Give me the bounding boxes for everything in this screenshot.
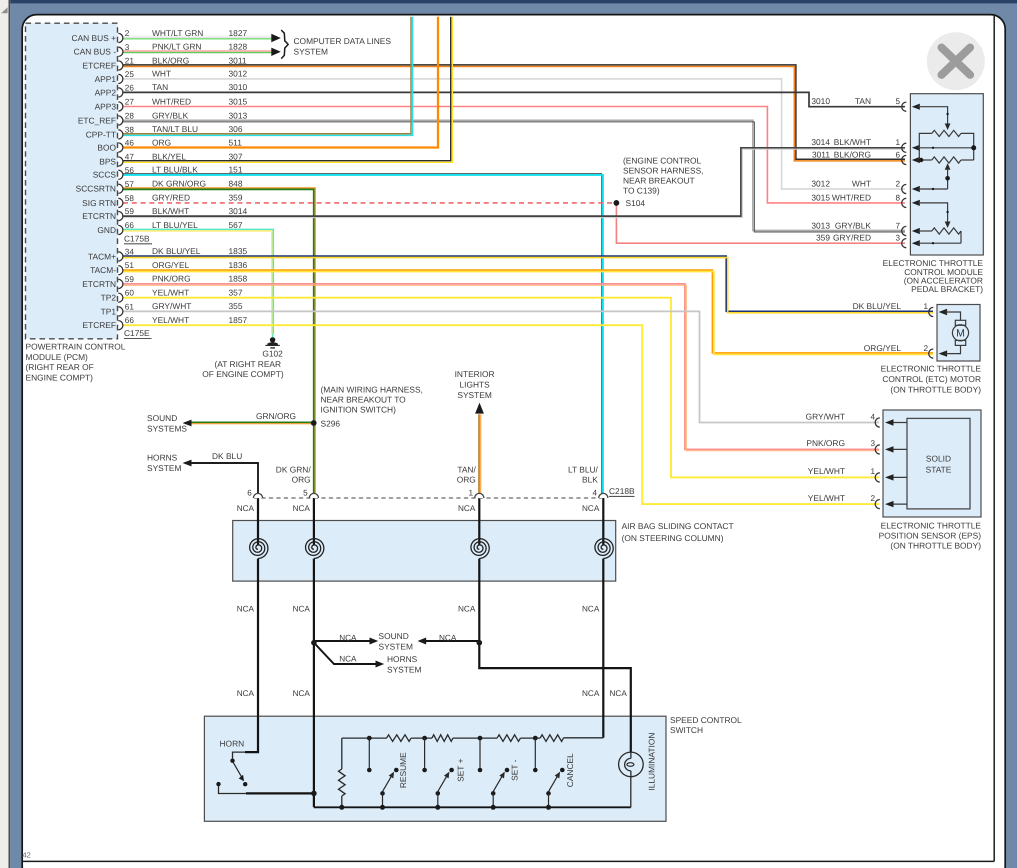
svg-text:1857: 1857: [229, 315, 248, 325]
svg-text:3010: 3010: [811, 96, 830, 106]
svg-text:2: 2: [125, 29, 130, 38]
svg-text:359: 359: [816, 233, 830, 243]
svg-text:3013: 3013: [811, 220, 830, 230]
svg-text:NCA: NCA: [439, 633, 457, 642]
svg-text:SCCSRTN: SCCSRTN: [76, 184, 116, 194]
svg-text:ORG: ORG: [457, 474, 476, 484]
svg-text:34: 34: [125, 247, 135, 256]
svg-text:ORG: ORG: [152, 137, 171, 147]
svg-text:S104: S104: [626, 198, 646, 208]
svg-text:WHT: WHT: [152, 69, 171, 79]
svg-text:NCA: NCA: [458, 504, 476, 513]
svg-text:TAN: TAN: [152, 82, 168, 92]
svg-text:42: 42: [23, 851, 31, 860]
svg-text:ELECTRONIC THROTTLE: ELECTRONIC THROTTLE: [881, 364, 982, 374]
svg-text:HORNS: HORNS: [387, 654, 418, 664]
svg-text:SYSTEM: SYSTEM: [379, 641, 413, 651]
svg-text:2: 2: [870, 494, 875, 503]
svg-text:DK BLU/YEL: DK BLU/YEL: [152, 246, 201, 256]
svg-text:(ON THROTTLE BODY): (ON THROTTLE BODY): [890, 385, 981, 395]
svg-text:GRN/ORG: GRN/ORG: [256, 411, 296, 421]
svg-text:RESUME: RESUME: [398, 752, 408, 788]
svg-text:1836: 1836: [229, 260, 248, 270]
svg-text:66: 66: [125, 221, 135, 230]
svg-text:YEL/WHT: YEL/WHT: [152, 315, 189, 325]
svg-text:NCA: NCA: [293, 689, 311, 698]
svg-text:CANCEL: CANCEL: [565, 753, 575, 787]
svg-text:SOLID: SOLID: [926, 453, 951, 463]
svg-text:AIR BAG SLIDING CONTACT: AIR BAG SLIDING CONTACT: [622, 521, 734, 531]
svg-text:ORG/YEL: ORG/YEL: [152, 260, 190, 270]
svg-text:C175E: C175E: [124, 328, 150, 338]
svg-text:BLK/YEL: BLK/YEL: [152, 151, 186, 161]
svg-text:57: 57: [125, 180, 135, 189]
svg-text:COMPUTER DATA LINES: COMPUTER DATA LINES: [294, 36, 392, 46]
svg-text:HORN: HORN: [220, 739, 245, 749]
svg-text:1858: 1858: [229, 274, 248, 284]
svg-text:CAN BUS +: CAN BUS +: [72, 33, 117, 43]
svg-text:46: 46: [125, 139, 135, 148]
svg-text:PEDAL BRACKET): PEDAL BRACKET): [911, 284, 983, 294]
svg-text:S296: S296: [321, 418, 341, 428]
svg-text:GND: GND: [97, 225, 116, 235]
svg-text:BLK/ORG: BLK/ORG: [152, 55, 189, 65]
svg-text:BLK/WHT: BLK/WHT: [152, 206, 189, 216]
svg-text:GRY/WHT: GRY/WHT: [806, 411, 845, 421]
svg-text:(RIGHT REAR OF: (RIGHT REAR OF: [26, 362, 94, 372]
svg-text:GRY/BLK: GRY/BLK: [152, 110, 189, 120]
svg-text:4: 4: [870, 412, 875, 421]
svg-text:848: 848: [229, 179, 243, 189]
svg-text:LT BLU/BLK: LT BLU/BLK: [152, 165, 198, 175]
svg-text:YEL/WHT: YEL/WHT: [152, 288, 189, 298]
svg-text:SET -: SET -: [510, 759, 520, 780]
svg-text:3: 3: [895, 234, 900, 243]
svg-text:25: 25: [125, 70, 135, 79]
svg-text:61: 61: [125, 302, 135, 311]
svg-text:APP1: APP1: [95, 74, 117, 84]
svg-text:G102: G102: [262, 349, 283, 359]
svg-text:SYSTEMS: SYSTEMS: [147, 423, 187, 433]
svg-text:C175B: C175B: [124, 234, 150, 244]
svg-text:3015: 3015: [229, 96, 248, 106]
svg-text:NCA: NCA: [458, 605, 476, 614]
svg-text:1827: 1827: [229, 28, 248, 38]
svg-text:ELECTRONIC THROTTLE: ELECTRONIC THROTTLE: [881, 520, 982, 530]
svg-text:DK BLU/YEL: DK BLU/YEL: [853, 301, 902, 311]
svg-text:GRY/WHT: GRY/WHT: [152, 301, 191, 311]
svg-text:ORG/YEL: ORG/YEL: [864, 343, 902, 353]
svg-text:SWITCH: SWITCH: [670, 725, 703, 735]
svg-text:(ENGINE CONTROL: (ENGINE CONTROL: [623, 155, 702, 165]
svg-text:ETCREF: ETCREF: [83, 320, 117, 330]
svg-text:DK BLU: DK BLU: [212, 451, 242, 461]
svg-text:POWERTRAIN CONTROL: POWERTRAIN CONTROL: [26, 342, 126, 352]
svg-text:WHT/RED: WHT/RED: [152, 96, 191, 106]
svg-text:2: 2: [923, 344, 928, 353]
svg-text:HORNS: HORNS: [147, 453, 178, 463]
svg-text:GRY/BLK: GRY/BLK: [835, 220, 872, 230]
svg-text:NCA: NCA: [339, 654, 357, 663]
svg-text:WHT/RED: WHT/RED: [832, 192, 871, 202]
svg-text:TAN/: TAN/: [457, 464, 476, 474]
svg-text:3013: 3013: [229, 110, 248, 120]
svg-text:SOUND: SOUND: [147, 413, 177, 423]
svg-text:ETC_REF: ETC_REF: [78, 115, 116, 125]
svg-text:GRY/RED: GRY/RED: [152, 193, 190, 203]
svg-text:NCA: NCA: [582, 689, 600, 698]
svg-text:M: M: [956, 328, 965, 340]
svg-text:357: 357: [229, 288, 243, 298]
svg-text:6: 6: [895, 150, 900, 159]
svg-text:66: 66: [125, 316, 135, 325]
svg-text:SOUND: SOUND: [379, 631, 409, 641]
svg-text:NCA: NCA: [582, 504, 600, 513]
svg-text:SYSTEM: SYSTEM: [387, 664, 421, 674]
svg-text:359: 359: [229, 193, 243, 203]
svg-text:TP1: TP1: [101, 306, 117, 316]
svg-text:DK GRN/: DK GRN/: [276, 464, 312, 474]
svg-text:ETCRTN: ETCRTN: [82, 279, 116, 289]
svg-text:1: 1: [870, 467, 875, 476]
svg-text:59: 59: [125, 275, 135, 284]
svg-text:4: 4: [593, 488, 598, 497]
svg-text:21: 21: [125, 57, 135, 66]
svg-text:TO C139): TO C139): [623, 186, 660, 196]
svg-text:26: 26: [125, 83, 135, 92]
svg-text:7: 7: [895, 221, 900, 230]
svg-text:5: 5: [895, 97, 900, 106]
svg-text:SIG RTN: SIG RTN: [82, 198, 116, 208]
svg-text:PNK/ORG: PNK/ORG: [152, 274, 191, 284]
svg-text:(ON THROTTLE BODY): (ON THROTTLE BODY): [890, 540, 981, 550]
svg-text:STATE: STATE: [926, 464, 952, 474]
svg-text:TACM+: TACM+: [88, 251, 116, 261]
svg-text:BLK: BLK: [582, 474, 598, 484]
svg-text:ETCREF: ETCREF: [83, 60, 117, 70]
svg-text:POSITION SENSOR (EPS): POSITION SENSOR (EPS): [879, 530, 982, 540]
svg-text:SENSOR HARNESS,: SENSOR HARNESS,: [623, 165, 704, 175]
svg-text:SYSTEM: SYSTEM: [294, 46, 328, 56]
svg-text:3015: 3015: [811, 192, 830, 202]
svg-text:TACM-: TACM-: [90, 265, 116, 275]
svg-text:3: 3: [870, 439, 875, 448]
svg-text:NCA: NCA: [237, 504, 255, 513]
svg-text:NCA: NCA: [582, 605, 600, 614]
svg-text:6: 6: [247, 488, 252, 497]
svg-text:OF ENGINE COMPT): OF ENGINE COMPT): [202, 369, 284, 379]
svg-text:SCCS: SCCS: [93, 170, 117, 180]
svg-text:CAN BUS -: CAN BUS -: [74, 47, 117, 57]
svg-text:YEL/WHT: YEL/WHT: [808, 493, 845, 503]
svg-text:ORG: ORG: [292, 474, 311, 484]
svg-text:C218B: C218B: [609, 486, 635, 496]
svg-text:LIGHTS: LIGHTS: [459, 380, 490, 390]
svg-text:8: 8: [895, 193, 900, 202]
svg-text:DK GRN/ORG: DK GRN/ORG: [152, 179, 206, 189]
svg-text:TAN/LT BLU: TAN/LT BLU: [152, 124, 198, 134]
svg-text:1: 1: [469, 488, 474, 497]
svg-text:SYSTEM: SYSTEM: [457, 390, 491, 400]
svg-text:2: 2: [895, 179, 900, 188]
svg-text:38: 38: [125, 125, 135, 134]
svg-text:3014: 3014: [811, 137, 830, 147]
svg-text:PNK/ORG: PNK/ORG: [806, 438, 845, 448]
svg-text:306: 306: [229, 124, 243, 134]
svg-text:BOO: BOO: [97, 142, 116, 152]
svg-text:(MAIN WIRING HARNESS,: (MAIN WIRING HARNESS,: [321, 384, 423, 394]
svg-text:3012: 3012: [811, 178, 830, 188]
svg-text:IGNITION SWITCH): IGNITION SWITCH): [321, 405, 397, 415]
svg-text:59: 59: [125, 207, 135, 216]
svg-text:NEAR BREAKOUT TO: NEAR BREAKOUT TO: [321, 394, 407, 404]
svg-text:LT BLU/YEL: LT BLU/YEL: [152, 220, 198, 230]
svg-text:(AT RIGHT REAR: (AT RIGHT REAR: [215, 359, 282, 369]
svg-text:3010: 3010: [229, 82, 248, 92]
svg-text:SPEED CONTROL: SPEED CONTROL: [670, 715, 742, 725]
svg-text:51: 51: [125, 261, 135, 270]
svg-text:567: 567: [229, 220, 243, 230]
svg-text:BLK/ORG: BLK/ORG: [834, 149, 871, 159]
svg-text:SET +: SET +: [455, 758, 465, 781]
svg-text:307: 307: [229, 151, 243, 161]
svg-text:ETCRTN: ETCRTN: [82, 211, 116, 221]
svg-text:NCA: NCA: [237, 605, 255, 614]
svg-text:1835: 1835: [229, 246, 248, 256]
svg-text:511: 511: [229, 137, 243, 147]
svg-text:PNK/LT GRN: PNK/LT GRN: [152, 42, 201, 52]
svg-text:MODULE (PCM): MODULE (PCM): [26, 352, 89, 362]
svg-text:NCA: NCA: [339, 633, 357, 642]
svg-text:ILLUMINATION: ILLUMINATION: [647, 733, 657, 791]
svg-text:60: 60: [125, 289, 135, 298]
svg-text:INTERIOR: INTERIOR: [455, 369, 495, 379]
svg-text:NCA: NCA: [237, 689, 255, 698]
svg-text:(ON STEERING COLUMN): (ON STEERING COLUMN): [622, 533, 724, 543]
svg-text:LT BLU/: LT BLU/: [568, 464, 599, 474]
svg-text:CPP-TT: CPP-TT: [86, 129, 116, 139]
svg-text:151: 151: [229, 165, 243, 175]
svg-text:BLK/WHT: BLK/WHT: [834, 137, 871, 147]
svg-text:GRY/RED: GRY/RED: [833, 233, 871, 243]
svg-text:NCA: NCA: [293, 605, 311, 614]
svg-text:355: 355: [229, 301, 243, 311]
svg-text:SYSTEM: SYSTEM: [147, 463, 181, 473]
svg-text:1: 1: [895, 138, 900, 147]
svg-text:58: 58: [125, 194, 135, 203]
svg-text:APP2: APP2: [95, 87, 117, 97]
svg-text:YEL/WHT: YEL/WHT: [808, 466, 845, 476]
svg-text:CONTROL (ETC) MOTOR: CONTROL (ETC) MOTOR: [882, 374, 981, 384]
svg-text:NCA: NCA: [610, 689, 628, 698]
svg-text:3012: 3012: [229, 69, 248, 79]
svg-text:TP2: TP2: [101, 293, 117, 303]
svg-text:3011: 3011: [812, 149, 830, 159]
svg-text:WHT: WHT: [852, 178, 871, 188]
svg-text:27: 27: [125, 98, 135, 107]
svg-text:NCA: NCA: [293, 504, 311, 513]
svg-text:28: 28: [125, 112, 135, 121]
svg-text:3011: 3011: [229, 55, 247, 65]
svg-text:BPS: BPS: [99, 156, 116, 166]
svg-text:3: 3: [125, 43, 130, 52]
svg-text:APP3: APP3: [95, 101, 117, 111]
svg-text:NEAR BREAKOUT: NEAR BREAKOUT: [623, 176, 695, 186]
svg-text:TAN: TAN: [855, 96, 871, 106]
svg-text:1: 1: [923, 302, 928, 311]
svg-text:47: 47: [125, 153, 135, 162]
svg-text:WHT/LT GRN: WHT/LT GRN: [152, 28, 203, 38]
svg-text:1828: 1828: [229, 42, 248, 52]
svg-text:5: 5: [303, 488, 308, 497]
svg-text:ENGINE COMPT): ENGINE COMPT): [26, 372, 94, 382]
svg-text:56: 56: [125, 166, 135, 175]
svg-text:3014: 3014: [229, 206, 248, 216]
